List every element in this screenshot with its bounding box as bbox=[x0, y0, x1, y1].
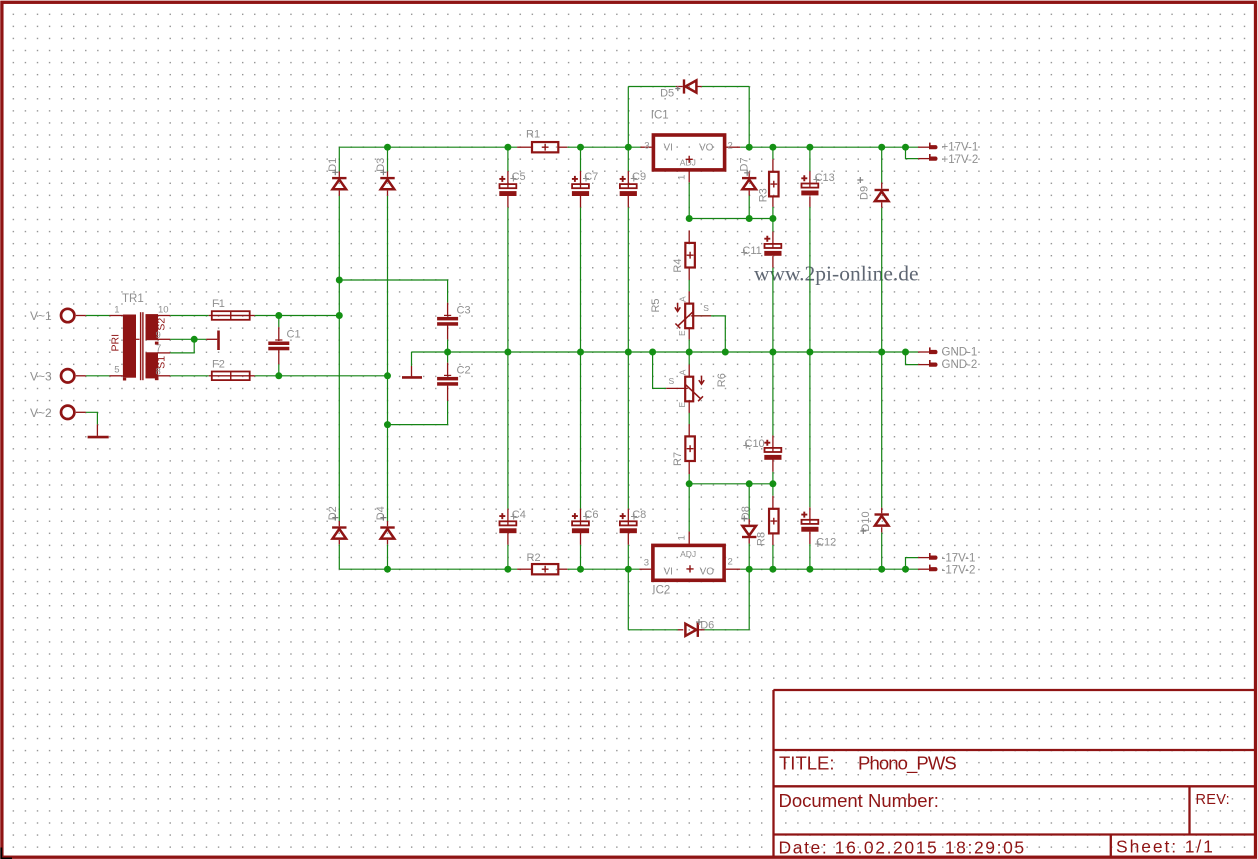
wire ADJ2 net bbox=[689, 483, 773, 485]
svg-text:7: 7 bbox=[156, 343, 161, 354]
wire C9/C8 column upper-mid bbox=[627, 207, 629, 352]
svg-text:R5: R5 bbox=[650, 298, 662, 312]
junction top rail x=881.7 bbox=[878, 144, 885, 151]
origin cross D4 bbox=[380, 515, 386, 521]
wire GND to C10 bbox=[772, 352, 774, 436]
junction C1 top bbox=[275, 312, 282, 319]
diode D6 bbox=[685, 623, 699, 637]
svg-text:REV:: REV: bbox=[1196, 792, 1231, 808]
wire top rail right of IC1 bbox=[740, 146, 918, 148]
svg-text:5: 5 bbox=[114, 365, 119, 376]
wire D10 to -17 rail bbox=[881, 532, 883, 569]
wire D3 column top bbox=[387, 147, 389, 171]
wire C5/C4 column bottom bbox=[507, 545, 509, 570]
junction C2 wire at D3 column bbox=[384, 421, 391, 428]
wire D1-D2 column mid bbox=[338, 196, 340, 521]
capacitor C11 bbox=[764, 236, 781, 256]
label origin cross C5 bbox=[510, 176, 516, 182]
junction top rail x=905.5 bbox=[902, 144, 909, 151]
junction ADJ2 x=772.9 bbox=[769, 480, 776, 487]
junction GND rail x=881.7 bbox=[878, 349, 885, 356]
origin cross D10 bbox=[860, 528, 866, 534]
trimmer potentiometer R6 bbox=[685, 376, 704, 402]
wire C7/C6 column top bbox=[580, 147, 582, 171]
svg-text:V~3: V~3 bbox=[30, 369, 52, 383]
wire bottom rail R2 to IC2 bbox=[567, 568, 639, 570]
svg-text:VI: VI bbox=[664, 567, 673, 578]
svg-text:R3: R3 bbox=[757, 188, 769, 202]
svg-text:V~1: V~1 bbox=[30, 309, 52, 323]
origin cross D6 bbox=[696, 619, 702, 625]
wire D5 loop left vertical bbox=[627, 87, 629, 148]
svg-text:R1: R1 bbox=[526, 129, 540, 141]
svg-text:IC1: IC1 bbox=[651, 110, 669, 122]
wire F1 to bridge AC1 bbox=[255, 315, 340, 317]
junction ADJ1 x=749.2 bbox=[746, 215, 753, 222]
svg-text:D10: D10 bbox=[860, 511, 872, 531]
resistor R4 bbox=[685, 243, 695, 268]
wire GND to C12 bbox=[809, 352, 811, 507]
svg-text:C12: C12 bbox=[816, 537, 836, 549]
wire R5 wiper to GND bbox=[694, 316, 726, 352]
svg-text:R2: R2 bbox=[527, 552, 541, 564]
svg-text:R6: R6 bbox=[716, 373, 728, 387]
svg-text:ADJ: ADJ bbox=[680, 549, 696, 559]
wire C7/C6 column upper-mid bbox=[580, 207, 582, 352]
transformer TR1 secondary S2 bbox=[146, 314, 159, 345]
svg-text:Document Number:: Document Number: bbox=[779, 790, 939, 811]
wire C5/C4 column top bbox=[507, 147, 509, 171]
wire D4 column bottom bbox=[387, 544, 389, 569]
black corner mark bottom-left bbox=[1, 848, 12, 859]
junction GND rail x=905.5 bbox=[902, 349, 909, 356]
wire AC1 to C3 bbox=[339, 280, 447, 303]
wire TR1 pin7 to center tap bbox=[170, 339, 194, 353]
svg-text:R7: R7 bbox=[672, 452, 684, 466]
wire C9/C8 column top bbox=[627, 147, 629, 171]
junction top rail x=772.9 bbox=[769, 144, 776, 151]
junction bottom rail x=507.9 bbox=[504, 566, 511, 573]
label origin cross C13 bbox=[813, 177, 819, 183]
diode D3 bbox=[380, 177, 394, 189]
wire ADJ2 to IC2 pin1 bbox=[688, 484, 690, 532]
svg-text:-17V-2: -17V-2 bbox=[942, 564, 976, 576]
junction GND rail x=628.3 bbox=[625, 349, 632, 356]
wire top rail R1 to IC1 bbox=[567, 146, 640, 148]
wire IC1 pin1 to ADJ1 bbox=[688, 182, 690, 218]
wire V~3 to TR1 pin5 bbox=[86, 375, 110, 377]
wire C12 to -17 rail bbox=[809, 544, 811, 569]
svg-text:+17V-1: +17V-1 bbox=[942, 142, 979, 154]
wire C11 to GND bbox=[772, 268, 774, 352]
capacitor C5 bbox=[499, 176, 516, 196]
label origin cross C10 bbox=[743, 443, 749, 449]
junction GND rail x=580.5 bbox=[577, 349, 584, 356]
wire ADJ1 net bbox=[689, 218, 773, 220]
diode D5 bbox=[683, 79, 697, 93]
capacitor C10 bbox=[764, 440, 781, 460]
label origin cross C4 bbox=[511, 514, 517, 520]
wire R5 to GND bbox=[688, 339, 690, 352]
diode D10 bbox=[875, 513, 889, 525]
junction C1 bottom bbox=[275, 372, 282, 379]
wire C7/C6 column lower-mid bbox=[580, 352, 582, 509]
transformer TR1 secondary S1 bbox=[146, 352, 159, 380]
svg-text:E: E bbox=[677, 330, 687, 336]
junction top rail x=507.9 bbox=[504, 144, 511, 151]
wire GND to D10 bbox=[881, 352, 883, 508]
capacitor C7 bbox=[572, 176, 589, 196]
fuse F2 bbox=[212, 372, 250, 381]
ground symbol below V~2 bbox=[88, 436, 109, 439]
junction top rail x=809.9 bbox=[806, 144, 813, 151]
svg-text:D5: D5 bbox=[660, 88, 674, 100]
terminal V~1 bbox=[61, 309, 74, 322]
wire F2 to bridge AC2 bbox=[255, 375, 388, 377]
wire D6 loop right vertical bbox=[748, 569, 750, 630]
capacitor C13 bbox=[801, 175, 818, 195]
svg-text:1: 1 bbox=[676, 175, 687, 180]
diode D7 bbox=[742, 177, 756, 189]
wire D8 to -17 rail bbox=[748, 544, 750, 570]
origin cross D3 bbox=[380, 169, 386, 175]
resistor R3 bbox=[769, 172, 779, 197]
svg-text:C11: C11 bbox=[742, 245, 761, 257]
svg-text:E: E bbox=[677, 402, 687, 408]
wire GND to R6 bbox=[688, 352, 690, 365]
svg-text:1: 1 bbox=[114, 305, 119, 316]
junction GND rail x=772.9 bbox=[769, 349, 776, 356]
wire C9/C8 column bottom bbox=[627, 545, 629, 570]
svg-text:1: 1 bbox=[676, 535, 687, 540]
label origin cross C7 bbox=[583, 176, 589, 182]
wire R7 to ADJ2 bbox=[688, 474, 690, 484]
resistor R2 bbox=[532, 564, 558, 574]
svg-text:VO: VO bbox=[700, 567, 715, 578]
wire TR1 pin10 to F1 bbox=[170, 315, 209, 317]
terminal pad +17V-2 bbox=[929, 154, 938, 161]
diode D4 bbox=[380, 526, 394, 538]
resistor R1 bbox=[532, 142, 558, 152]
wire C3-C2 column at GND bbox=[447, 339, 449, 362]
terminal pad GND-2 bbox=[929, 360, 938, 367]
trimmer potentiometer R5 bbox=[675, 303, 693, 329]
svg-text:2: 2 bbox=[728, 557, 733, 568]
wire C10 to ADJ2 bbox=[772, 472, 774, 484]
junction bottom rail x=881.7 bbox=[878, 566, 885, 573]
wire TR1 pin8 to F2 bbox=[170, 375, 209, 377]
svg-text:3: 3 bbox=[644, 558, 649, 569]
label origin cross C9 bbox=[631, 176, 637, 182]
junction top rail x=749.2 bbox=[746, 144, 753, 151]
wire +17V-2 branch bbox=[906, 147, 919, 158]
diode D9 bbox=[875, 189, 889, 201]
svg-text:D3: D3 bbox=[375, 158, 387, 172]
wire R4 to R5 bbox=[688, 280, 690, 292]
junction ADJ1 x=772.9 bbox=[769, 215, 776, 222]
wire C13 column top bbox=[809, 147, 811, 171]
junction bottom rail x=809.9 bbox=[806, 566, 813, 573]
wire D2 column bottom bbox=[338, 544, 340, 569]
op-amp regulator IC2 box bbox=[653, 545, 724, 580]
fuse F1 bbox=[212, 311, 250, 320]
title block frame bbox=[774, 690, 1256, 856]
junction GND rail x=725.3 bbox=[722, 349, 729, 356]
wire R8 to -17 rail bbox=[772, 545, 774, 569]
junction top rail x=387.5 bbox=[384, 144, 391, 151]
terminal pad -17V-1 bbox=[929, 553, 938, 560]
svg-text:F2: F2 bbox=[212, 359, 225, 371]
wire D5 loop right vertical bbox=[748, 87, 750, 148]
wire TR1 pin9 to center-tap gnd bbox=[170, 338, 206, 340]
terminal pad -17V-2 bbox=[929, 565, 938, 572]
wire R3 to ADJ1 bbox=[772, 207, 774, 219]
svg-text:+17V-2: +17V-2 bbox=[942, 154, 979, 166]
wire C2 to AC2 bbox=[388, 401, 448, 425]
svg-text:PRI: PRI bbox=[110, 334, 122, 352]
svg-text:Phono_PWS: Phono_PWS bbox=[858, 753, 956, 775]
junction GND rail x=507.9 bbox=[504, 349, 511, 356]
origin cross IC1 origin bbox=[686, 156, 693, 163]
wire C5/C4 column lower-mid bbox=[507, 352, 509, 509]
junction bottom rail x=628.3 bbox=[625, 566, 632, 573]
junction bottom rail x=905.5 bbox=[902, 566, 909, 573]
wire -17V-1 branch bbox=[906, 558, 919, 570]
junction bottom rail x=749.2 bbox=[746, 566, 753, 573]
svg-text:S: S bbox=[669, 376, 675, 386]
svg-text:D6: D6 bbox=[700, 620, 714, 632]
terminal V~2 bbox=[61, 406, 74, 419]
wire C9/C8 column lower-mid bbox=[627, 352, 629, 509]
wire D6 loop left vertical bbox=[627, 569, 629, 630]
junction AC2 at D3 column bbox=[384, 372, 391, 379]
wire C1 bottom lead bbox=[278, 364, 280, 376]
diode D1 bbox=[332, 177, 346, 189]
svg-text:A: A bbox=[678, 296, 688, 302]
svg-text:D1: D1 bbox=[327, 158, 339, 172]
wire GND-2 branch bbox=[906, 352, 919, 365]
resistor R7 bbox=[685, 436, 695, 461]
wire GND symbol drop near C2 bbox=[411, 352, 413, 366]
wire GND rail bbox=[412, 351, 919, 353]
wire C1 top lead bbox=[278, 316, 280, 328]
wire D9 to GND bbox=[881, 208, 883, 352]
wire top rail left of R1 bbox=[339, 146, 517, 148]
wire D1 column top bbox=[338, 147, 340, 171]
svg-text:9: 9 bbox=[156, 330, 161, 341]
diode D2 bbox=[332, 526, 346, 538]
wire D7 to ADJ1 bbox=[748, 196, 750, 219]
terminal V~3 bbox=[61, 369, 74, 382]
wire D9 column top bbox=[881, 147, 883, 182]
wire ADJ2 to D8 bbox=[748, 484, 750, 519]
svg-text:3: 3 bbox=[644, 141, 649, 152]
capacitor C6 bbox=[572, 513, 589, 533]
junction top rail x=580.5 bbox=[577, 144, 584, 151]
wire R6 wiper to GND bbox=[653, 352, 667, 388]
terminal pad +17V-1 bbox=[929, 143, 938, 150]
svg-text:www.2pi-online.de: www.2pi-online.de bbox=[754, 262, 919, 286]
svg-text:Date: 16.02.2015 18:29:05: Date: 16.02.2015 18:29:05 bbox=[779, 838, 1026, 858]
label origin cross C8 bbox=[631, 514, 637, 520]
wire D5 loop top left bbox=[628, 86, 676, 88]
diode D8 bbox=[742, 526, 756, 538]
label origin cross C6 bbox=[583, 514, 589, 520]
svg-text:VO: VO bbox=[699, 143, 714, 154]
junction GND rail x=689.2 bbox=[686, 349, 693, 356]
svg-text:C1: C1 bbox=[287, 329, 301, 341]
wire bottom rail right of IC2 bbox=[740, 568, 918, 570]
svg-text:C13: C13 bbox=[815, 172, 835, 184]
junction center tap bbox=[191, 336, 198, 343]
svg-text:C2: C2 bbox=[457, 365, 471, 377]
junction bottom rail x=387.5 bbox=[384, 566, 391, 573]
svg-text:F1: F1 bbox=[212, 298, 225, 310]
ground symbol at C2/C3 junction bbox=[402, 376, 422, 379]
pin stubs (red) bbox=[76, 87, 929, 630]
wire C13 to GND bbox=[809, 207, 811, 352]
svg-text:-17V-1: -17V-1 bbox=[942, 552, 976, 564]
svg-text:R4: R4 bbox=[672, 259, 684, 273]
junction bottom rail x=772.9 bbox=[769, 566, 776, 573]
capacitor C2 bbox=[437, 375, 458, 385]
junction ADJ1 x=689.2 bbox=[686, 215, 693, 222]
wire D6 loop bottom left bbox=[628, 629, 678, 631]
transformer TR1 core bbox=[141, 312, 143, 380]
wire D6 loop bottom right bbox=[705, 629, 750, 631]
svg-text:Sheet: 1/1: Sheet: 1/1 bbox=[1116, 837, 1215, 857]
wire V~1 to TR1 pin1 bbox=[86, 315, 110, 317]
svg-text:D9: D9 bbox=[859, 186, 871, 200]
wire C7/C6 column bottom bbox=[580, 545, 582, 570]
svg-text:V~2: V~2 bbox=[30, 406, 52, 420]
origin cross D5 bbox=[675, 86, 680, 91]
label origin cross C12 bbox=[815, 541, 821, 547]
wire R3 column top bbox=[772, 147, 774, 159]
svg-text:IC2: IC2 bbox=[652, 585, 670, 597]
svg-text:R8: R8 bbox=[756, 532, 768, 546]
svg-text:GND-2: GND-2 bbox=[942, 359, 978, 371]
wire ADJ2 to R8 bbox=[772, 484, 774, 496]
svg-text:10: 10 bbox=[158, 305, 169, 316]
origin cross D2 bbox=[332, 515, 338, 521]
op-amp regulator IC1 box bbox=[653, 135, 724, 170]
svg-text:TITLE:: TITLE: bbox=[779, 753, 835, 774]
svg-text:C3: C3 bbox=[457, 305, 471, 317]
capacitor C3 bbox=[437, 315, 458, 325]
wire C5/C4 column upper-mid bbox=[507, 207, 509, 352]
wire bottom rail left of R2 bbox=[339, 568, 517, 570]
wire V~2 to ground bbox=[86, 412, 98, 424]
svg-text:D7: D7 bbox=[739, 157, 751, 171]
label origin cross C11 bbox=[741, 250, 747, 256]
svg-text:TR1: TR1 bbox=[122, 293, 144, 305]
capacitor C8 bbox=[620, 513, 637, 533]
junction ADJ2 x=689.2 bbox=[686, 480, 693, 487]
svg-text:A: A bbox=[678, 369, 688, 375]
origin cross D9 bbox=[857, 177, 863, 183]
svg-text:C10: C10 bbox=[745, 438, 765, 450]
terminal pad GND-1 bbox=[929, 347, 938, 354]
junction bottom rail x=580.5 bbox=[577, 566, 584, 573]
svg-text:2: 2 bbox=[728, 141, 733, 152]
origin cross IC2 origin bbox=[686, 565, 693, 572]
capacitor C12 bbox=[801, 512, 818, 532]
ground symbol at transformer center tap bbox=[217, 331, 220, 351]
junction GND rail x=809.9 bbox=[806, 349, 813, 356]
junction GND rail x=447.6 bbox=[444, 349, 451, 356]
origin cross D7 bbox=[744, 170, 750, 176]
junction AC1 at D1 column bbox=[336, 312, 343, 319]
svg-text:GND-1: GND-1 bbox=[942, 347, 978, 359]
transformer TR1 primary winding bbox=[123, 315, 140, 381]
capacitor C4 bbox=[499, 513, 516, 533]
wire D3-D4 column mid bbox=[387, 196, 389, 521]
capacitor C9 bbox=[620, 176, 637, 196]
origin cross D8 bbox=[741, 516, 747, 522]
junction top rail x=628.3 bbox=[625, 144, 632, 151]
wire R6 to R7 bbox=[688, 413, 690, 424]
origin cross D1 bbox=[332, 169, 338, 175]
svg-text:S: S bbox=[703, 303, 709, 313]
capacitor C1 bbox=[268, 340, 289, 350]
svg-text:VI: VI bbox=[664, 143, 673, 154]
resistor R8 bbox=[769, 509, 779, 534]
svg-text:8: 8 bbox=[156, 367, 161, 378]
svg-text:S2: S2 bbox=[156, 318, 168, 331]
wire ADJ1 to C11 bbox=[772, 219, 774, 232]
junction ADJ2 x=749.2 bbox=[746, 480, 753, 487]
junction GND rail x=652.6 bbox=[649, 349, 656, 356]
junction C3 wire at D1 column bbox=[336, 277, 343, 284]
wire D5 loop top right bbox=[702, 86, 750, 88]
